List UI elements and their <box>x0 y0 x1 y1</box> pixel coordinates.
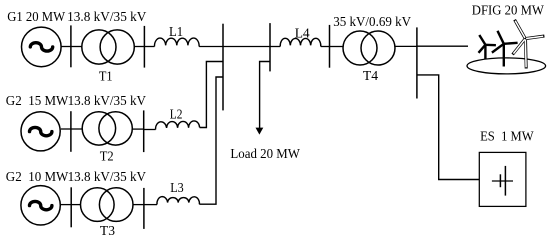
wind turbine 3 (outline) <box>513 20 545 69</box>
wire bus C to DFIG <box>417 45 468 47</box>
svg-text:T3: T3 <box>100 224 115 239</box>
wire bus to T3 <box>71 204 81 206</box>
inductor L2 <box>156 121 200 130</box>
wire G3 to bus <box>61 204 71 206</box>
transformer T2 <box>82 112 132 145</box>
load tap wire from bus B <box>260 62 270 129</box>
svg-text:L2: L2 <box>170 107 183 122</box>
bus bar row3 right <box>143 188 145 229</box>
wire T2 to bus <box>132 128 143 130</box>
svg-text:L4: L4 <box>295 26 310 41</box>
svg-text:Load 20 MW: Load 20 MW <box>230 147 300 162</box>
wire L2 riser to bus A <box>200 62 223 128</box>
wire bus to T2 <box>71 128 83 130</box>
wire G2 to bus <box>61 128 71 130</box>
svg-text:T2: T2 <box>100 150 114 165</box>
wire bus B to L4 <box>270 46 280 48</box>
wire L3 riser to bus A <box>199 77 223 204</box>
wire L1 to bus A <box>199 46 223 48</box>
wire T1 to bus <box>134 46 144 48</box>
svg-text:13.8 kV/35 kV: 13.8 kV/35 kV <box>68 170 146 185</box>
svg-text:L1: L1 <box>169 25 183 40</box>
ES box <box>479 152 526 206</box>
wire L4 to bus <box>321 46 330 48</box>
svg-text:13.8 kV/35 kV: 13.8 kV/35 kV <box>67 10 146 25</box>
wire bus A to bus B <box>223 46 270 48</box>
generator G2 (15 MW) <box>21 112 60 151</box>
load arrow head <box>256 128 264 135</box>
wire bus to L3 <box>144 204 157 206</box>
inductor L3 <box>157 197 199 205</box>
battery symbol inside ES <box>492 166 513 196</box>
generator G1 <box>22 27 62 67</box>
transformer T4 <box>343 31 395 65</box>
bus bar row3 left <box>70 187 72 227</box>
wire bus to L1 <box>144 46 154 48</box>
svg-text:G2 15 MW: G2 15 MW <box>6 94 69 109</box>
generator G3 (10 MW) <box>21 186 60 225</box>
bus bar row1 left <box>70 25 72 67</box>
inductor L4 <box>280 38 321 46</box>
svg-text:G2 10 MW: G2 10 MW <box>6 170 69 185</box>
wire bus C to ES <box>417 75 479 180</box>
svg-text:35 kV/0.69 kV: 35 kV/0.69 kV <box>333 15 411 30</box>
svg-text:L3: L3 <box>170 181 184 196</box>
wind farm ground ellipse <box>467 58 546 74</box>
bus bar before T4 <box>329 25 331 68</box>
wire T3 to bus <box>133 204 144 206</box>
bus bar row1 right <box>143 26 145 68</box>
bus bar row2 right <box>143 110 145 152</box>
wire bus to T4 <box>330 46 344 48</box>
wire bus to T1 <box>71 46 82 48</box>
svg-text:DFIG 20 MW: DFIG 20 MW <box>472 4 545 19</box>
wire bus to L2 <box>144 129 156 131</box>
bus B (node) <box>269 23 271 71</box>
transformer T3 <box>81 188 134 222</box>
wind turbine 2 <box>492 31 518 67</box>
svg-text:T1: T1 <box>99 70 113 85</box>
svg-text:G1 20 MW: G1 20 MW <box>7 10 66 25</box>
transformer T1 <box>82 30 135 64</box>
svg-text:ES 1 MW: ES 1 MW <box>480 130 534 145</box>
bus C (node) <box>416 27 418 98</box>
svg-text:13.8 kV/35 kV: 13.8 kV/35 kV <box>68 94 146 109</box>
svg-text:T4: T4 <box>363 69 378 84</box>
wire T4 to bus C <box>395 45 417 47</box>
inductor L1 <box>154 38 199 46</box>
wire G1 to bus <box>61 46 71 48</box>
bus bar row2 left <box>70 111 72 152</box>
wind turbine 1 <box>479 35 496 59</box>
bus A (node) <box>222 24 224 111</box>
